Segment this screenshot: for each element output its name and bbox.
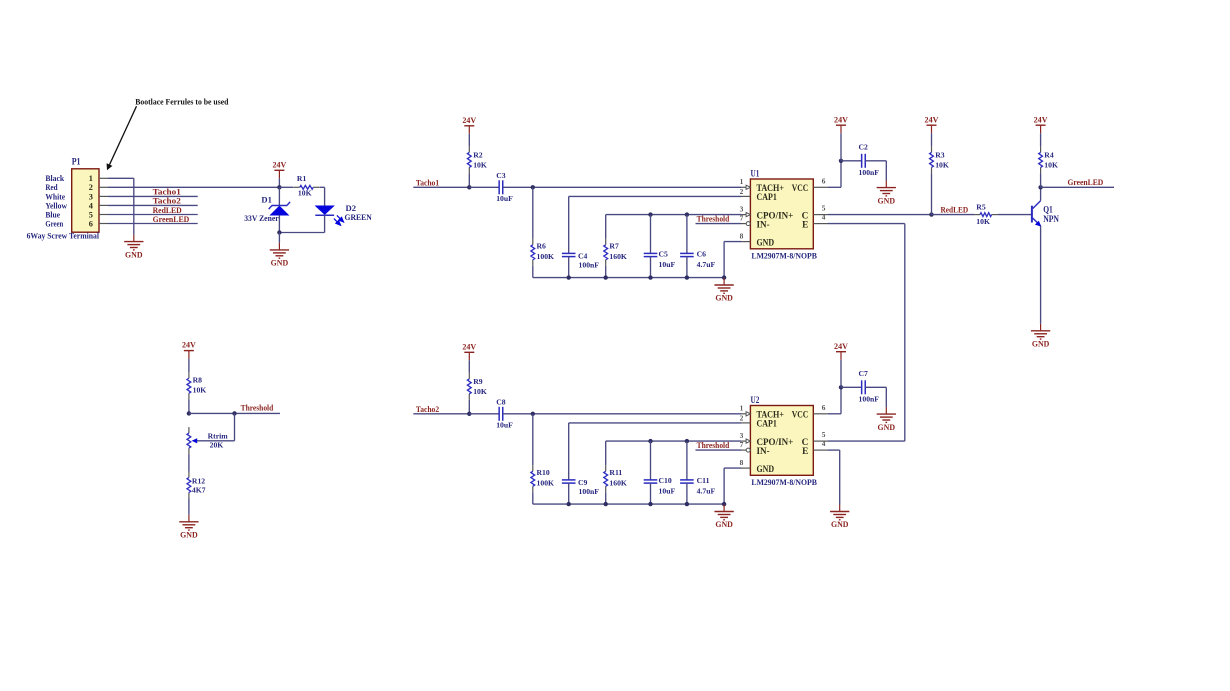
junction RedLED node xyxy=(929,212,933,216)
svg-text:Blue: Blue xyxy=(45,210,60,219)
capacitor C7 xyxy=(861,380,863,394)
svg-text:C10: C10 xyxy=(659,476,672,485)
wire U2 C output xyxy=(828,440,905,442)
P1 pin 6 Green xyxy=(99,223,108,225)
resistor R3 xyxy=(931,146,933,152)
resistor R6 xyxy=(532,187,534,239)
wire CAP1 to C4 xyxy=(569,195,741,197)
svg-text:VCC: VCC xyxy=(792,411,809,421)
U1 pin 1 xyxy=(741,186,746,188)
svg-text:CAP1: CAP1 xyxy=(757,420,778,430)
wire U1 C output xyxy=(828,214,932,216)
svg-text:100K: 100K xyxy=(537,479,555,488)
wire P1 pin1 to gnd corner xyxy=(108,177,134,179)
wire Tacho1 to R2 node xyxy=(413,186,469,188)
capacitor C11 xyxy=(686,441,688,480)
svg-text:R5: R5 xyxy=(976,202,986,211)
ground P1 xyxy=(133,235,135,242)
wire R5 to Q1 base xyxy=(998,214,1031,216)
svg-text:GND: GND xyxy=(715,520,733,529)
svg-text:C11: C11 xyxy=(697,476,710,485)
svg-text:6: 6 xyxy=(89,219,93,228)
svg-text:GND: GND xyxy=(757,238,775,248)
svg-text:4K7: 4K7 xyxy=(192,485,206,494)
svg-text:10uF: 10uF xyxy=(659,486,676,495)
junction zener gnd node xyxy=(277,230,281,234)
junction C10 rail xyxy=(648,502,652,506)
svg-text:GreenLED: GreenLED xyxy=(1068,178,1104,187)
wire E to U2 C vertical xyxy=(904,224,906,442)
svg-text:C5: C5 xyxy=(659,250,669,259)
P1 pin 3 White xyxy=(99,195,108,197)
wire wiper left xyxy=(197,440,235,442)
wire to C7 xyxy=(841,386,862,388)
svg-text:4: 4 xyxy=(822,439,826,448)
U2 pin 1 xyxy=(741,413,746,415)
IC U2 LM2907M-8/NOPB body xyxy=(750,406,813,476)
connector P1 6Way Screw Terminal body xyxy=(72,169,99,232)
svg-text:10K: 10K xyxy=(473,161,487,170)
U2 pin 4 xyxy=(813,449,828,451)
annotation arrow to P1 xyxy=(110,106,137,165)
svg-text:GND: GND xyxy=(180,531,198,540)
wire P1 Tacho2 xyxy=(108,204,198,206)
junction C4 rail xyxy=(567,275,571,279)
svg-text:Green: Green xyxy=(45,219,63,228)
svg-text:IN-: IN- xyxy=(757,220,770,230)
U2 pin 8 xyxy=(741,467,750,469)
junction C6 rail xyxy=(685,275,689,279)
wire P1 pin2 to 24V node xyxy=(108,186,279,188)
wire R4 to node xyxy=(1040,173,1042,187)
svg-text:IN-: IN- xyxy=(757,447,770,457)
junction 24V D1 node xyxy=(277,185,281,189)
wire pin8 down xyxy=(723,242,725,278)
svg-text:24V: 24V xyxy=(834,115,848,124)
junction Tacho1 node xyxy=(467,185,471,189)
svg-text:8: 8 xyxy=(740,458,744,467)
capacitor C6 xyxy=(686,215,688,254)
svg-text:C8: C8 xyxy=(496,397,506,406)
wire C2 to gnd xyxy=(865,160,886,162)
svg-text:Tacho2: Tacho2 xyxy=(416,405,439,414)
capacitor C8 xyxy=(498,407,500,421)
svg-text:10K: 10K xyxy=(473,387,487,396)
svg-text:7: 7 xyxy=(740,440,744,449)
P1 pin 1 Black xyxy=(99,177,108,179)
svg-text:100K: 100K xyxy=(537,252,555,261)
capacitor C4 xyxy=(568,196,570,253)
wire D2 anode xyxy=(324,187,326,206)
U2 pin 5 xyxy=(813,440,828,442)
svg-text:GND: GND xyxy=(878,423,896,432)
svg-text:GND: GND xyxy=(831,520,849,529)
svg-text:100nF: 100nF xyxy=(579,487,600,496)
U1 pin 7 xyxy=(741,223,746,225)
resistor R4 xyxy=(1040,146,1042,152)
wire P1 GreenLED xyxy=(108,223,198,225)
U1 pin 2 xyxy=(741,195,750,197)
junction R6 top xyxy=(531,185,535,189)
svg-text:Black: Black xyxy=(45,174,64,183)
wire VCC up xyxy=(840,161,842,188)
resistor R11 xyxy=(605,441,607,465)
wire node to R1 xyxy=(279,186,293,188)
wire P1 gnd down xyxy=(133,178,135,234)
junction threshold node xyxy=(187,411,191,415)
svg-text:10K: 10K xyxy=(193,385,207,394)
transistor Q1 NPN xyxy=(1032,201,1041,226)
wire wiper down xyxy=(234,413,236,440)
wire D2 cathode down xyxy=(324,215,326,232)
svg-text:R9: R9 xyxy=(473,377,483,386)
wire R3 to node xyxy=(931,173,933,214)
svg-text:C9: C9 xyxy=(578,478,588,487)
svg-text:NPN: NPN xyxy=(1043,214,1059,224)
svg-text:RedLED: RedLED xyxy=(941,205,969,214)
svg-text:2: 2 xyxy=(740,187,744,196)
wire GND pin8 xyxy=(724,241,741,243)
IC U1 LM2907M-8/NOPB body xyxy=(750,179,813,249)
wire CPO row to R7 xyxy=(606,214,741,216)
U2 pin 2 xyxy=(741,422,750,424)
wire ground rail xyxy=(533,503,724,505)
svg-text:4: 4 xyxy=(822,213,826,222)
wire Tacho2 to R9 node xyxy=(413,413,469,415)
resistor R9 xyxy=(468,373,470,379)
svg-text:Bootlace Ferrules to be used: Bootlace Ferrules to be used xyxy=(135,97,228,107)
junction VCC C7 xyxy=(839,385,843,389)
svg-text:10K: 10K xyxy=(298,189,312,198)
U1 pin 3 xyxy=(741,214,746,216)
junction rail GND xyxy=(722,275,726,279)
resistor R1 xyxy=(294,186,300,188)
svg-text:6Way Screw Terminal: 6Way Screw Terminal xyxy=(27,232,100,241)
svg-text:4: 4 xyxy=(89,201,93,210)
svg-text:R10: R10 xyxy=(537,468,550,477)
svg-text:Threshold: Threshold xyxy=(697,214,730,223)
junction C11 rail xyxy=(685,502,689,506)
svg-text:D1: D1 xyxy=(261,195,272,205)
svg-text:100nF: 100nF xyxy=(859,168,880,177)
wire ground rail xyxy=(533,277,724,279)
ground D1 D2 xyxy=(278,233,280,243)
wire R8 to node xyxy=(188,399,190,413)
svg-text:160K: 160K xyxy=(609,479,627,488)
svg-text:Threshold: Threshold xyxy=(697,441,730,450)
wire C8 to pin1 xyxy=(503,413,741,415)
wire VCC up xyxy=(840,387,842,414)
svg-text:3: 3 xyxy=(740,431,744,440)
ground rail U2 xyxy=(723,503,725,505)
P1 pin 4 Yellow xyxy=(99,204,108,206)
svg-text:R7: R7 xyxy=(609,242,619,251)
svg-text:VCC: VCC xyxy=(792,184,809,194)
svg-text:7: 7 xyxy=(740,213,744,222)
svg-text:P1: P1 xyxy=(72,156,81,166)
svg-text:5: 5 xyxy=(822,430,826,439)
svg-text:GND: GND xyxy=(1032,340,1050,349)
svg-text:24V: 24V xyxy=(462,116,476,125)
ground divider xyxy=(188,515,190,522)
svg-text:GND: GND xyxy=(715,294,733,303)
svg-text:3: 3 xyxy=(740,204,744,213)
svg-text:White: White xyxy=(45,192,65,201)
U2 pin 3 xyxy=(741,440,746,442)
capacitor C2 xyxy=(861,154,863,168)
svg-text:GND: GND xyxy=(271,259,289,268)
junction C9 rail xyxy=(567,502,571,506)
svg-text:C6: C6 xyxy=(697,250,707,259)
svg-text:C3: C3 xyxy=(496,171,506,180)
svg-text:2: 2 xyxy=(89,183,93,192)
junction GreenLED node xyxy=(1038,185,1042,189)
svg-text:C4: C4 xyxy=(578,252,588,261)
svg-text:R4: R4 xyxy=(1044,151,1054,160)
junction Tacho2 node xyxy=(467,412,471,416)
wire Rtrim to R12 xyxy=(188,454,190,471)
svg-text:100nF: 100nF xyxy=(579,260,600,269)
U1 pin names xyxy=(757,184,809,248)
wire C2 gnd down xyxy=(885,161,887,181)
svg-text:10K: 10K xyxy=(976,217,990,226)
svg-text:24V: 24V xyxy=(925,115,939,124)
svg-text:GREEN: GREEN xyxy=(345,212,373,222)
svg-text:Q1: Q1 xyxy=(1043,205,1053,215)
svg-text:24V: 24V xyxy=(182,341,196,350)
svg-text:LM2907M-8/NOPB: LM2907M-8/NOPB xyxy=(751,251,817,260)
junction C11 top xyxy=(685,439,689,443)
wire P1 Tacho1 xyxy=(108,195,198,197)
U2 pin 7 xyxy=(741,449,746,451)
svg-text:4.7uF: 4.7uF xyxy=(697,486,716,495)
capacitor C9 xyxy=(568,423,570,480)
junction VCC C2 xyxy=(839,159,843,163)
wire to C2 xyxy=(841,160,862,162)
svg-text:10uF: 10uF xyxy=(496,194,513,203)
resistor R8 xyxy=(188,372,190,378)
wire Q1 collector up xyxy=(1040,187,1042,200)
junction rail GND xyxy=(722,502,726,506)
svg-text:20K: 20K xyxy=(210,440,224,449)
wire VCC pin6 xyxy=(828,186,841,188)
svg-text:Tacho1: Tacho1 xyxy=(416,179,439,188)
wire GND pin8 xyxy=(724,467,741,469)
wire pin8 down xyxy=(723,468,725,504)
wire CAP1 to C9 xyxy=(569,422,741,424)
svg-text:1: 1 xyxy=(740,177,744,186)
ground C2 xyxy=(885,181,887,188)
svg-text:24V: 24V xyxy=(834,342,848,351)
wire GreenLED out xyxy=(1041,186,1114,188)
svg-text:GND: GND xyxy=(757,465,775,475)
svg-text:R8: R8 xyxy=(193,375,203,384)
junction C10 top xyxy=(648,439,652,443)
svg-text:5: 5 xyxy=(89,210,93,219)
ground U2 emitter xyxy=(839,505,841,512)
junction R11 rail xyxy=(604,502,608,506)
svg-text:10K: 10K xyxy=(1044,161,1058,170)
trimmer Rtrim xyxy=(192,438,198,443)
svg-text:Red: Red xyxy=(45,183,58,192)
svg-text:E: E xyxy=(802,447,808,457)
capacitor C10 xyxy=(650,441,652,480)
svg-text:2: 2 xyxy=(740,414,744,423)
junction wiper tap xyxy=(232,411,236,415)
wire C7 to gnd xyxy=(865,386,886,388)
svg-text:E: E xyxy=(802,220,808,230)
wire C3 to pin1 xyxy=(503,186,741,188)
svg-text:R6: R6 xyxy=(537,242,547,251)
svg-text:R11: R11 xyxy=(609,468,622,477)
svg-text:1: 1 xyxy=(740,404,744,413)
junction R7 rail xyxy=(604,275,608,279)
junction R10 top xyxy=(531,412,535,416)
svg-text:C2: C2 xyxy=(859,143,869,152)
wire node to R5 xyxy=(932,214,975,216)
svg-text:6: 6 xyxy=(822,176,826,185)
junction C6 top xyxy=(685,212,689,216)
wire P1 RedLED xyxy=(108,214,198,216)
svg-text:100nF: 100nF xyxy=(859,395,880,404)
wire Q1 emitter down xyxy=(1040,226,1042,324)
U2 pin names xyxy=(757,411,809,475)
wire threshold out xyxy=(189,412,280,414)
svg-text:Rtrim: Rtrim xyxy=(208,431,229,440)
resistor R5 xyxy=(974,214,980,216)
svg-text:10uF: 10uF xyxy=(496,421,513,430)
resistor R2 xyxy=(468,146,470,152)
svg-text:R1: R1 xyxy=(297,174,307,183)
wire Threshold to IN- xyxy=(696,223,742,225)
wire node to C3 xyxy=(469,186,499,188)
P1 pin 2 Red xyxy=(99,186,108,188)
svg-text:10K: 10K xyxy=(935,161,949,170)
wire VCC pin6 xyxy=(828,413,841,415)
resistor R7 xyxy=(605,215,607,239)
svg-text:U2: U2 xyxy=(751,395,760,405)
ground C7 xyxy=(885,407,887,414)
svg-text:Threshold: Threshold xyxy=(241,404,274,413)
wire D2 to gnd node xyxy=(279,232,324,234)
svg-text:R2: R2 xyxy=(473,151,483,160)
svg-text:GND: GND xyxy=(125,250,143,259)
ground Q1 xyxy=(1040,324,1042,331)
svg-text:GND: GND xyxy=(878,196,896,205)
svg-text:U1: U1 xyxy=(751,169,760,179)
wire R1 to D2 corner xyxy=(320,186,325,188)
wire node to C8 xyxy=(469,413,499,415)
wire U1 E output xyxy=(828,223,905,225)
junction C5 rail xyxy=(648,275,652,279)
svg-text:3: 3 xyxy=(89,192,93,201)
U1 pin 8 xyxy=(741,241,750,243)
svg-text:5: 5 xyxy=(822,204,826,213)
U1 pin 5 xyxy=(813,214,828,216)
svg-text:CAP1: CAP1 xyxy=(757,193,778,203)
capacitor C3 xyxy=(498,180,500,194)
wire R2 to node xyxy=(468,173,470,187)
svg-text:6: 6 xyxy=(822,403,826,412)
junction C5 top xyxy=(648,212,652,216)
wire R12 to gnd xyxy=(188,499,190,515)
wire U2 E output xyxy=(828,449,840,451)
wire U2 E down xyxy=(839,450,841,504)
svg-text:C7: C7 xyxy=(859,369,869,378)
U1 pin 6 xyxy=(813,186,828,188)
svg-text:160K: 160K xyxy=(609,252,627,261)
svg-text:GreenLED: GreenLED xyxy=(153,214,190,224)
resistor R12 xyxy=(188,472,190,478)
svg-text:4.7uF: 4.7uF xyxy=(697,260,716,269)
svg-text:24V: 24V xyxy=(272,160,286,169)
ground rail U1 xyxy=(723,277,725,279)
resistor R10 xyxy=(532,414,534,466)
diode D1 33V Zener xyxy=(278,187,280,205)
U1 pin 4 xyxy=(813,223,828,225)
diode D2 GREEN LED xyxy=(315,206,334,215)
svg-text:10uF: 10uF xyxy=(659,260,676,269)
P1 pin 5 Blue xyxy=(99,214,108,216)
svg-text:Yellow: Yellow xyxy=(45,201,67,210)
svg-text:1: 1 xyxy=(89,174,93,183)
svg-text:R3: R3 xyxy=(935,151,945,160)
svg-text:24V: 24V xyxy=(462,342,476,351)
svg-text:24V: 24V xyxy=(1034,115,1048,124)
wire Threshold to IN- xyxy=(696,449,742,451)
wire R9 to node xyxy=(468,400,470,414)
wire CPO row to R11 xyxy=(606,440,741,442)
U2 pin 6 xyxy=(813,413,828,415)
wire C7 gnd down xyxy=(885,387,887,407)
svg-text:33V Zener: 33V Zener xyxy=(244,213,279,223)
svg-text:LM2907M-8/NOPB: LM2907M-8/NOPB xyxy=(751,478,817,487)
capacitor C5 xyxy=(650,215,652,254)
svg-text:8: 8 xyxy=(740,231,744,240)
